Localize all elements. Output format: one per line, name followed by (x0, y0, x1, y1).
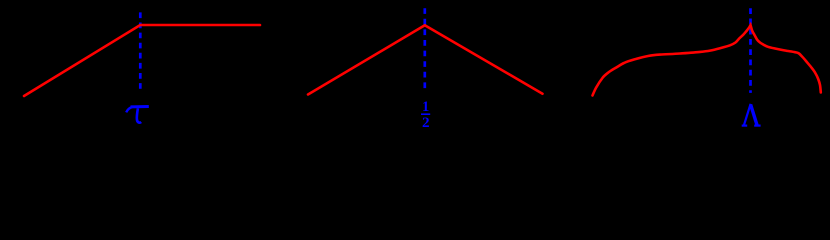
plot 1: label tau (126, 107, 149, 123)
plot 3: label Lambda (742, 104, 761, 126)
plot 3: red cusp density curve (593, 25, 821, 96)
svg-text:1: 1 (422, 99, 429, 115)
plot 2: label 1/2 fraction (421, 99, 430, 131)
plot 2: dashed guide line at x=1/2 (423, 8, 426, 88)
svg-text:2: 2 (422, 115, 430, 131)
plot 3: dashed guide line at x=Lambda (749, 8, 752, 93)
plot 1: dashed guide line at x=tau (139, 12, 142, 89)
plot 1: red ramp curve (rise then flat) (24, 25, 260, 96)
plot 2: red tent curve (308, 25, 543, 94)
